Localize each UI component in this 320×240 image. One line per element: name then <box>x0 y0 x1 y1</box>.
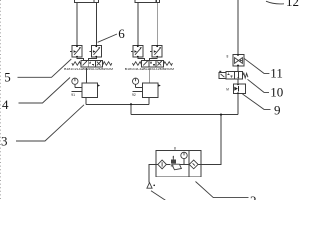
spring V2 right <box>163 62 172 66</box>
counter box K1 <box>72 83 100 98</box>
wire main riser to top <box>237 0 239 55</box>
wire valve V1 port B jog <box>89 57 97 61</box>
directional valve V2 (5/3 valve) <box>142 61 164 67</box>
svg-text:11: 11 <box>270 65 283 80</box>
wire supply bus <box>131 114 238 116</box>
wire valve V2 port A jog <box>138 57 145 61</box>
spring V1 right <box>103 62 112 66</box>
wire valve V2 to box K2 <box>148 68 150 83</box>
svg-text:2: 2 <box>250 193 257 200</box>
svg-text:8: 8 <box>227 54 229 58</box>
wire box K1 down <box>85 98 87 105</box>
wire cylinder C1 right port tube <box>95 3 97 46</box>
svg-text:M: M <box>226 87 229 91</box>
spring V2 left <box>133 62 142 66</box>
spring valve 10 right <box>243 73 248 78</box>
wire cylinder C2 left port tube <box>137 2 139 45</box>
leader line 12 <box>266 1 284 4</box>
wire box K2 down <box>148 98 150 105</box>
pressure gauge G2 <box>133 78 143 87</box>
regulator <box>171 156 182 170</box>
wire valve 10 to valve 11 <box>237 66 239 72</box>
leader line 4 <box>19 78 71 104</box>
shut-off valve 9 <box>234 84 246 94</box>
leader line 9 <box>243 94 271 109</box>
filter diamond <box>158 160 167 169</box>
directional valve V1 (5/3 valve, label 5) <box>81 61 103 67</box>
svg-text:8: 8 <box>174 147 176 151</box>
leader line 11 <box>244 58 269 73</box>
node junction on supply bus <box>220 114 222 116</box>
FRL gauge <box>181 152 187 164</box>
FRL unit (label 2) <box>156 150 201 176</box>
svg-text:6: 6 <box>118 26 125 41</box>
pressure gauge G1 (label 4) <box>72 78 82 87</box>
svg-text:92: 92 <box>132 93 136 97</box>
wire cylinder C2 right port tube <box>156 2 158 45</box>
counter box K2 <box>132 83 160 98</box>
leader line 1 <box>151 191 166 201</box>
lubricator diamond <box>189 160 198 169</box>
flow control valve B2a <box>131 45 143 57</box>
wire header drop <box>130 104 132 114</box>
leader line 6 <box>98 34 117 42</box>
leader line 2 <box>196 182 249 198</box>
wire FRL inlet <box>149 164 156 182</box>
svg-text:91: 91 <box>71 93 75 97</box>
wire bus to FRL <box>201 115 221 165</box>
wire bus up to valve 9 <box>237 93 239 114</box>
leader line 10 <box>248 79 270 92</box>
svg-text:9: 9 <box>274 103 281 118</box>
leader line 3 <box>16 105 84 141</box>
wire valve 9 to valve 10 <box>237 79 239 84</box>
wire valve V2 port B jog <box>149 57 157 61</box>
svg-text:5: 5 <box>4 70 11 85</box>
wire valve V1 to box K1 <box>85 68 87 83</box>
svg-text:B181C2L4aBL2ZAL12M8ZX2M: B181C2L4aBL2ZAL12M8ZX2M <box>64 67 113 71</box>
flow control valve B1a <box>70 45 82 57</box>
cylinder C1 top body <box>75 0 99 3</box>
node near triangle <box>153 185 155 187</box>
svg-text:10: 10 <box>270 84 283 99</box>
flow control valve B1b (label 6) <box>89 45 101 57</box>
3/2 valve 10 <box>219 71 243 79</box>
node junction on header <box>130 103 132 105</box>
shut-off valve 11 <box>233 54 244 66</box>
leader line 5 <box>18 59 72 77</box>
flow control valve B2b <box>150 45 162 57</box>
svg-text:12: 12 <box>286 0 299 9</box>
wire valve V1 port A jog <box>77 57 84 61</box>
air supply triangle <box>147 183 152 189</box>
spring V1 left <box>72 62 81 66</box>
svg-text:4: 4 <box>2 97 9 112</box>
wire cylinder C1 left port tube <box>76 3 78 46</box>
svg-text:3: 3 <box>1 134 8 149</box>
cylinder C2 top body <box>135 0 159 2</box>
wire manifold header (label 3) <box>86 103 149 105</box>
